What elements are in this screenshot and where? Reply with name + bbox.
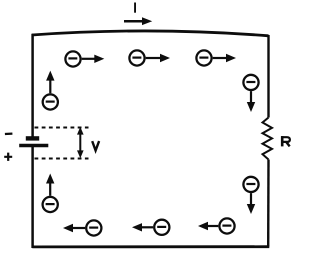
arrow of e6 (down) [247, 91, 255, 112]
electron e2 (top-middle) [129, 50, 144, 65]
battery minus sign [5, 133, 12, 136]
electron e8 (bottom-left) [86, 220, 101, 235]
arrow of e8 (left) [63, 224, 85, 232]
arrow of e4 (up) [46, 71, 54, 94]
label R [281, 136, 290, 146]
electron e6 (right upper) [243, 75, 258, 90]
battery V plate positive (long bar) [19, 144, 48, 148]
label V [92, 141, 99, 150]
wire top [32, 31, 269, 36]
electron e5 (left lower) [43, 197, 58, 212]
arrow of e1 (right) [82, 55, 105, 63]
V double arrow [77, 127, 84, 158]
arrow of e2 (right) [146, 54, 170, 62]
arrow of e9 (left) [132, 223, 153, 231]
wire right lower [267, 160, 270, 247]
electron e4 (left upper) [43, 94, 58, 109]
battery plus sign [4, 153, 12, 161]
electron e1 (top-left) [65, 51, 80, 66]
dashed line bottom of V measure [35, 158, 89, 160]
wire left lower [31, 147, 34, 249]
arrow of e5 (up) [46, 174, 54, 196]
resistor R [263, 118, 273, 160]
label I [134, 3, 136, 13]
dashed line top of V measure [35, 127, 89, 129]
arrow of e7 (down) [247, 193, 255, 214]
wire right upper [267, 35, 269, 118]
wire bottom [32, 245, 269, 248]
wire left upper [31, 34, 34, 137]
battery V plate negative (short thick bar) [26, 136, 39, 140]
arrow of e3 (right) [213, 54, 236, 62]
arrow of e10 (left) [198, 222, 218, 230]
electron e7 (right lower) [243, 177, 258, 192]
current I arrow [124, 17, 152, 25]
electron e10 (bottom-right) [219, 218, 234, 233]
electron e9 (bottom-middle) [154, 220, 169, 235]
electron e3 (top-right) [196, 50, 211, 65]
